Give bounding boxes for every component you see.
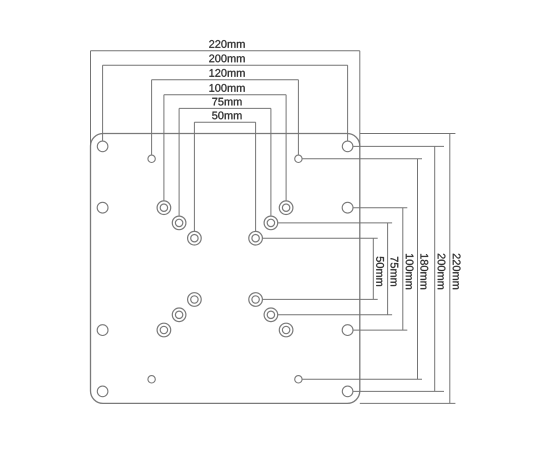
edge hole left upper (200x100): [97, 202, 108, 213]
dim 200mm horizontal top: [103, 65, 348, 141]
label 220mm right (rotated): [453, 254, 461, 289]
small hole top-left (120x180): [148, 155, 155, 162]
dim 50mm vertical right: [262, 238, 377, 299]
grommet hole VESA50 bottom-left: [188, 293, 202, 307]
small hole bottom-right (120x180): [295, 376, 302, 383]
corner hole bottom-right (VESA200): [342, 386, 353, 397]
small hole bottom-left (120x180): [148, 376, 155, 383]
dim 220mm vertical right: [360, 134, 456, 404]
grommet hole VESA100 top-left: [157, 201, 171, 215]
grommet hole VESA100 bottom-left: [157, 323, 171, 337]
label 100mm top: [209, 84, 244, 92]
label 200mm top: [209, 55, 244, 63]
grommet hole VESA100 bottom-right: [279, 323, 293, 337]
label 180mm right (rotated): [420, 254, 428, 289]
grommet hole VESA50 top-right: [249, 231, 263, 245]
dim 100mm vertical right: [353, 208, 407, 330]
label 100mm right (rotated): [406, 254, 414, 289]
plate outline: [91, 134, 360, 404]
label 200mm right (rotated): [438, 254, 446, 289]
dim 100mm horizontal top: [164, 95, 286, 201]
label 50mm right (rotated): [376, 257, 384, 286]
dim 120mm horizontal top: [152, 80, 299, 155]
grommet hole VESA75 bottom-left: [172, 308, 186, 322]
label 75mm right (rotated): [391, 257, 399, 286]
dim 50mm horizontal top: [194, 122, 255, 231]
edge hole left lower (200x100): [97, 325, 108, 336]
dim 200mm vertical right: [353, 146, 444, 391]
grommet hole VESA75 bottom-right: [264, 308, 278, 322]
corner hole top-right (VESA200): [342, 141, 353, 152]
dim 220mm horizontal top: [91, 51, 360, 146]
grommet hole VESA75 top-right: [264, 216, 278, 230]
edge hole right lower (200x100): [342, 325, 353, 336]
small hole top-right (120x180): [295, 155, 302, 162]
grommet hole VESA100 top-right: [279, 201, 293, 215]
grommet hole VESA50 bottom-right: [249, 293, 263, 307]
label 220mm top: [209, 40, 244, 48]
corner hole bottom-left (VESA200): [97, 386, 108, 397]
label 120mm top: [209, 69, 244, 77]
dim 75mm vertical right: [278, 223, 392, 315]
label 75mm top: [212, 98, 241, 106]
dim 75mm horizontal top: [179, 108, 271, 216]
corner hole top-left (VESA200): [97, 141, 108, 152]
grommet hole VESA50 top-left: [188, 231, 202, 245]
label 50mm top: [212, 112, 241, 120]
dim 180mm vertical right: [302, 159, 422, 379]
edge hole right upper (200x100): [342, 202, 353, 213]
grommet hole VESA75 top-left: [172, 216, 186, 230]
